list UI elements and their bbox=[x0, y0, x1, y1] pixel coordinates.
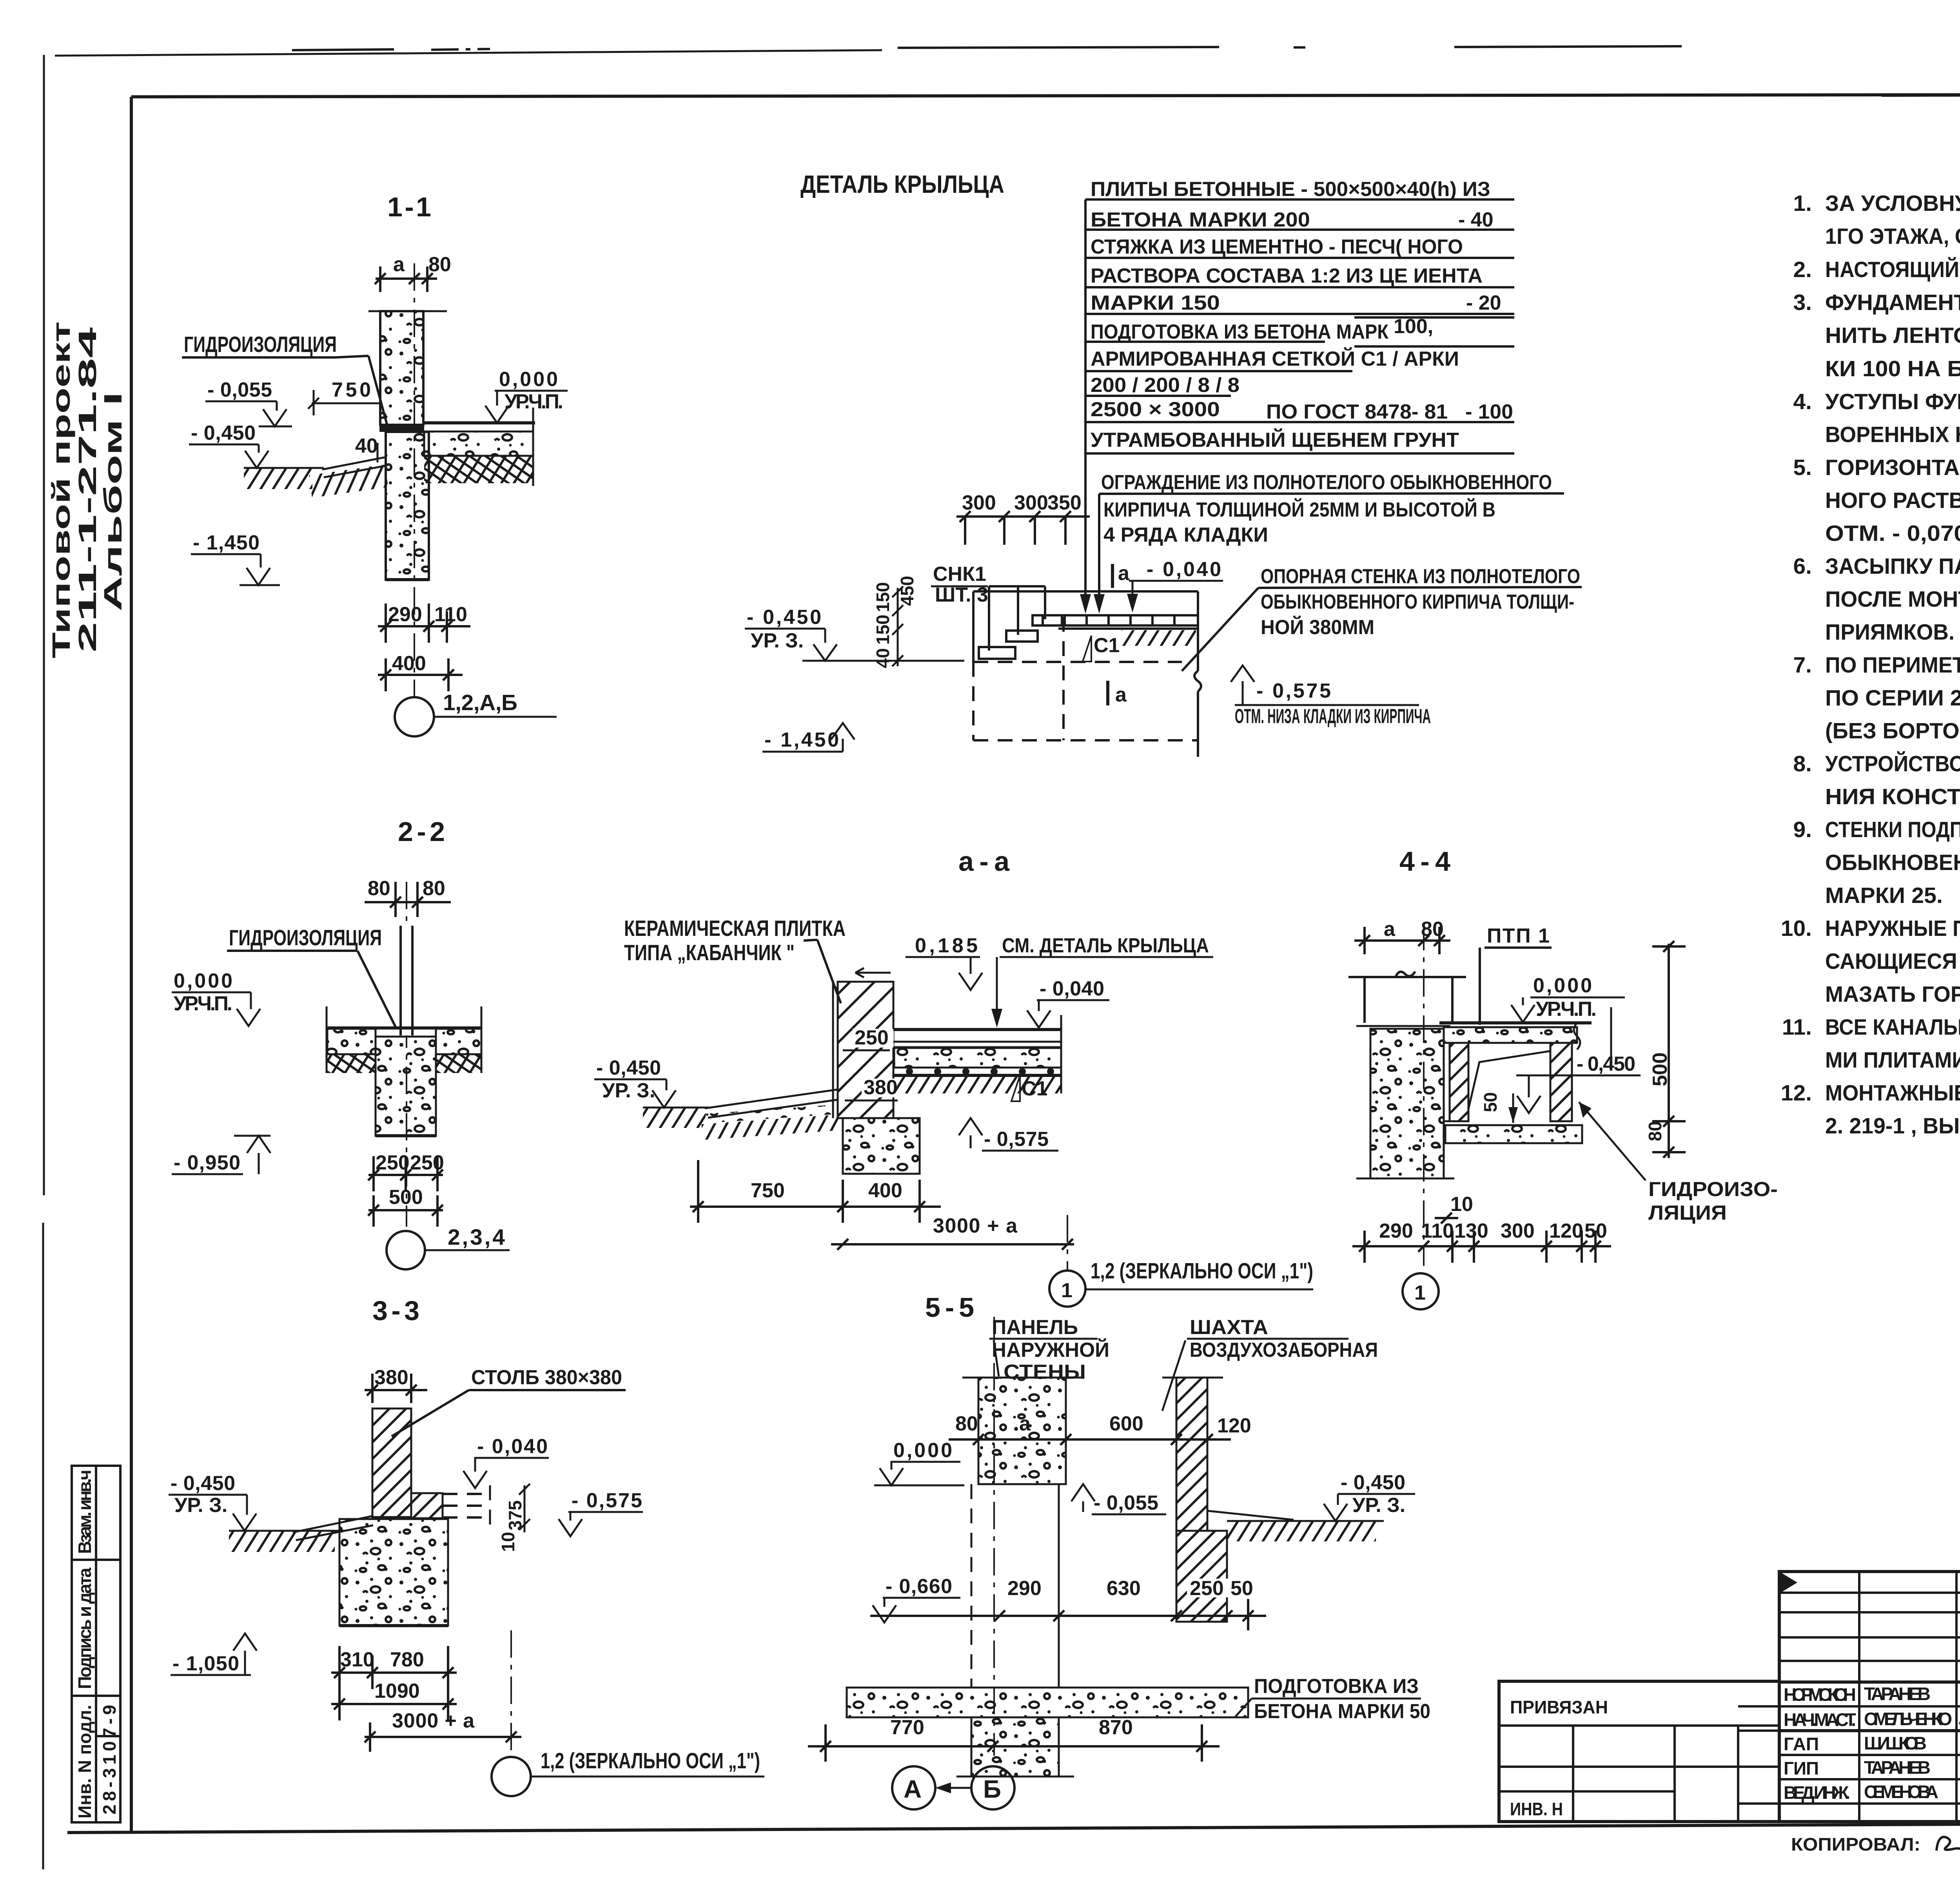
svg-text:МОНТАЖНЫЕ УЗЛЫ ПОДПОЛЬНЫХ КАНА: МОНТАЖНЫЕ УЗЛЫ ПОДПОЛЬНЫХ КАНАЛОВ ВЫПОЛН… bbox=[1825, 1080, 1960, 1106]
svg-text:УР. З.: УР. З. bbox=[602, 1079, 655, 1102]
svg-text:40: 40 bbox=[355, 435, 378, 457]
rotated dims 10 375 bbox=[498, 1500, 525, 1552]
svg-text:200 / 200 / 8 / 8: 200 / 200 / 8 / 8 bbox=[1091, 374, 1240, 397]
svg-text:СМ. ДЕТАЛЬ КРЫЛЬЦА: СМ. ДЕТАЛЬ КРЫЛЬЦА bbox=[1002, 934, 1209, 957]
svg-text:120: 120 bbox=[1549, 1220, 1583, 1242]
svg-text:ШАХТА: ШАХТА bbox=[1190, 1316, 1268, 1339]
privyazan box bbox=[1499, 1681, 1779, 1822]
svg-text:0,000: 0,000 bbox=[174, 970, 232, 992]
svg-text:4 - 4: 4 - 4 bbox=[1399, 846, 1450, 877]
svg-text:- 0,660: - 0,660 bbox=[886, 1575, 952, 1598]
svg-text:630: 630 bbox=[1107, 1577, 1141, 1600]
channel bottom slab bbox=[1445, 1125, 1582, 1143]
left grid verticals bbox=[1858, 1572, 1860, 1822]
svg-text:ПЛИТЫ БЕТОННЫЕ - 500×500×40(h): ПЛИТЫ БЕТОННЫЕ - 500×500×40(h) ИЗ bbox=[1091, 178, 1490, 201]
axis circle 2,3,4 bbox=[387, 1231, 425, 1269]
svg-text:150: 150 bbox=[873, 582, 893, 612]
lower wall 5-5 bbox=[971, 1484, 973, 1688]
svg-text:750: 750 bbox=[751, 1179, 785, 1202]
svg-text:УР. З.: УР. З. bbox=[174, 1494, 227, 1517]
axis circle 1,2,A,B bbox=[395, 697, 434, 736]
svg-text:МИ ПЛИТАМИ, УКЛАДЫВАЯ ИХ НА ЦЕ: МИ ПЛИТАМИ, УКЛАДЫВАЯ ИХ НА ЦЕМЕНТНЫЙ РА… bbox=[1825, 1047, 1960, 1073]
svg-text:БЕТОНА МАРКИ 50: БЕТОНА МАРКИ 50 bbox=[1254, 1700, 1430, 1723]
svg-text:Типовой проект: Типовой проект bbox=[47, 321, 75, 658]
svg-text:ТИПА „КАБАНЧИК ": ТИПА „КАБАНЧИК " bbox=[624, 940, 795, 965]
svg-text:2,3,4: 2,3,4 bbox=[448, 1225, 505, 1250]
foundation a-a bbox=[843, 1118, 920, 1174]
svg-text:УР.Ч.П.: УР.Ч.П. bbox=[505, 390, 563, 413]
svg-text:ОТМ. - 0,070).: ОТМ. - 0,070). bbox=[1825, 521, 1960, 546]
svg-text:НАЧ.МАСТ.: НАЧ.МАСТ. bbox=[1784, 1709, 1856, 1730]
svg-text:ПТП 1: ПТП 1 bbox=[1487, 925, 1550, 947]
svg-text:250: 250 bbox=[376, 1151, 410, 1174]
svg-text:ГАП: ГАП bbox=[1784, 1734, 1819, 1754]
plates row bbox=[1033, 614, 1197, 616]
svg-text:1: 1 bbox=[1414, 1282, 1426, 1304]
svg-text:- 20: - 20 bbox=[1466, 292, 1501, 314]
svg-text:1: 1 bbox=[1061, 1279, 1073, 1302]
svg-text:290: 290 bbox=[1007, 1577, 1042, 1600]
brick wall a-a bbox=[838, 982, 893, 1118]
svg-text:ГОРИЗОНТАЛЬНУЮ ГИДРОИЗОЛЯЦИЮ В: ГОРИЗОНТАЛЬНУЮ ГИДРОИЗОЛЯЦИЮ ВЫПОЛНИТЬ И… bbox=[1825, 455, 1960, 480]
svg-text:ТАРАНЕВ: ТАРАНЕВ bbox=[1864, 1684, 1931, 1704]
250 and 380 labels on wall bbox=[853, 1029, 894, 1048]
sheet outer left edge bbox=[43, 55, 45, 1195]
channel walls hatched bbox=[1450, 1043, 1468, 1121]
svg-text:a: a bbox=[1384, 918, 1396, 941]
top edge line bbox=[55, 50, 882, 56]
svg-text:1,2 (ЗЕРКАЛЬНО ОСИ „1"): 1,2 (ЗЕРКАЛЬНО ОСИ „1") bbox=[1091, 1258, 1313, 1283]
svg-text:10.: 10. bbox=[1781, 916, 1812, 941]
svg-text:0,000: 0,000 bbox=[499, 368, 558, 391]
foundation 2-2 bbox=[376, 1037, 436, 1136]
svg-text:4.: 4. bbox=[1793, 389, 1812, 414]
svg-text:А: А bbox=[904, 1775, 922, 1803]
svg-text:5 - 5: 5 - 5 bbox=[925, 1292, 974, 1323]
svg-text:80: 80 bbox=[955, 1412, 978, 1435]
svg-text:11.: 11. bbox=[1782, 1015, 1812, 1040]
svg-text:ВЕД. ИНЖ.: ВЕД. ИНЖ. bbox=[1784, 1782, 1850, 1803]
svg-text:350: 350 bbox=[1047, 491, 1082, 514]
porch slab layers right bbox=[893, 1028, 1061, 1031]
svg-text:НОГО РАСТВОРА СОСТАВА 1:2 ТОЛЩ: НОГО РАСТВОРА СОСТАВА 1:2 ТОЛЩИНОЙ 25ММ … bbox=[1825, 488, 1960, 513]
general notes 1-12 bbox=[1781, 191, 1960, 1138]
svg-text:ОТМ. НИЗА КЛАДКИ ИЗ КИРПИЧА: ОТМ. НИЗА КЛАДКИ ИЗ КИРПИЧА bbox=[1235, 705, 1431, 728]
porch plan drawing bbox=[989, 586, 1045, 651]
svg-text:0,000: 0,000 bbox=[1533, 974, 1592, 997]
svg-text:300: 300 bbox=[1014, 491, 1048, 514]
svg-text:- 1,450: - 1,450 bbox=[193, 531, 260, 554]
svg-text:САЮЩИЕСЯ С ГРУНТОМ, ЗАТЕРЕТЬ Ц: САЮЩИЕСЯ С ГРУНТОМ, ЗАТЕРЕТЬ ЦЕМЕНТНЫМ Р… bbox=[1825, 949, 1960, 974]
svg-text:211-1-271.84: 211-1-271.84 bbox=[73, 327, 102, 653]
wall panel 5-5 bbox=[978, 1378, 1066, 1484]
waterproofing line in channel bbox=[1468, 1051, 1550, 1109]
svg-text:- 0,575: - 0,575 bbox=[984, 1128, 1049, 1151]
svg-text:- 0,450: - 0,450 bbox=[191, 422, 256, 444]
plan outline bbox=[973, 590, 1198, 593]
500 80 vertical dims bbox=[1645, 1052, 1671, 1141]
svg-text:1,2,А,Б: 1,2,А,Б bbox=[443, 690, 517, 715]
axis circles A B bbox=[892, 1766, 935, 1809]
svg-text:1,2 (ЗЕРКАЛЬНО ОСИ „1"): 1,2 (ЗЕРКАЛЬНО ОСИ „1") bbox=[541, 1748, 760, 1773]
svg-text:0,000: 0,000 bbox=[893, 1439, 952, 1462]
svg-text:Взам. инв.ч: Взам. инв.ч bbox=[74, 1470, 95, 1554]
svg-text:МАРКИ 150: МАРКИ 150 bbox=[1091, 292, 1220, 314]
svg-text:290: 290 bbox=[388, 603, 422, 626]
svg-text:ЗА УСЛОВНУЮ ОТМЕТКУ 0,00 ПРИНЯ: ЗА УСЛОВНУЮ ОТМЕТКУ 0,00 ПРИНЯТЬ УРОВЕНЬ… bbox=[1825, 191, 1960, 216]
svg-text:ПРИЯМКОВ.: ПРИЯМКОВ. bbox=[1825, 620, 1955, 645]
svg-text:НИЯ КОНСТРУКЦИЙ ПОЛОВ НА ОТМ.: НИЯ КОНСТРУКЦИЙ ПОЛОВ НА ОТМ. 0,000 И - … bbox=[1825, 784, 1960, 809]
svg-text:ЗАСЫПКУ ПАЗУХ ПРИ УСТРОЙСТВЕ Ф: ЗАСЫПКУ ПАЗУХ ПРИ УСТРОЙСТВЕ ФУНДАМЕНТОВ… bbox=[1825, 553, 1960, 579]
svg-text:ГИП: ГИП bbox=[1784, 1758, 1819, 1778]
upper wall 1-1 bbox=[380, 311, 423, 425]
svg-text:ОБЫКНОВЕННОГО КИРПИЧА ТОЛЩИ-: ОБЫКНОВЕННОГО КИРПИЧА ТОЛЩИ- bbox=[1261, 591, 1574, 613]
svg-text:УР.Ч.П.: УР.Ч.П. bbox=[174, 992, 232, 1015]
svg-text:Альбом I: Альбом I bbox=[99, 392, 127, 611]
frame left bbox=[130, 97, 133, 1831]
svg-text:РАСТВОРА СОСТАВА 1:2 ИЗ ЦЕ ИЕН: РАСТВОРА СОСТАВА 1:2 ИЗ ЦЕ ИЕНТА bbox=[1091, 265, 1483, 287]
svg-text:- 0,040: - 0,040 bbox=[477, 1435, 548, 1458]
svg-text:Б: Б bbox=[983, 1775, 1001, 1803]
svg-text:НАСТОЯЩИЙ ЧЕРТЕЖ ЧИТАТЬ СОВМЕС: НАСТОЯЩИЙ ЧЕРТЕЖ ЧИТАТЬ СОВМЕСТНО С АС-6… bbox=[1825, 257, 1960, 282]
svg-text:- 0,055: - 0,055 bbox=[207, 379, 272, 401]
svg-text:80: 80 bbox=[423, 877, 445, 900]
post hatched 3-3 bbox=[372, 1409, 411, 1517]
svg-text:50: 50 bbox=[1230, 1577, 1253, 1600]
svg-text:ВСЕ КАНАЛЫ ПЕРЕКРЫТЬ СБОРНЫМИ: ВСЕ КАНАЛЫ ПЕРЕКРЫТЬ СБОРНЫМИ ЖЕЛЕЗОБЕТО… bbox=[1825, 1015, 1960, 1040]
svg-text:Инв. N подл.: Инв. N подл. bbox=[74, 1705, 95, 1818]
svg-text:1ГО ЭТАЖА, СООТВЕТСТВУЮЩИЙ АБС: 1ГО ЭТАЖА, СООТВЕТСТВУЮЩИЙ АБСОЛЮТНОЙ ОТ… bbox=[1825, 223, 1960, 249]
left margin vertical project text bbox=[47, 321, 127, 658]
svg-text:ПОДГОТОВКА ИЗ: ПОДГОТОВКА ИЗ bbox=[1254, 1675, 1419, 1698]
svg-text:2500 × 3000: 2500 × 3000 bbox=[1091, 398, 1220, 421]
svg-text:- 0,450: - 0,450 bbox=[1341, 1471, 1405, 1494]
svg-text:- 0,575: - 0,575 bbox=[1256, 680, 1331, 702]
svg-text:3000 + a: 3000 + a bbox=[392, 1709, 475, 1732]
ground 5-5 bbox=[1227, 1520, 1384, 1522]
svg-text:130: 130 bbox=[1454, 1220, 1488, 1242]
svg-text:СТЕНКИ ПОДПОЛЬНЫХ КАНАЛОВ И ПР: СТЕНКИ ПОДПОЛЬНЫХ КАНАЛОВ И ПРИЯМКОВ КЛА… bbox=[1825, 817, 1960, 842]
svg-text:4 РЯДА КЛАДКИ: 4 РЯДА КЛАДКИ bbox=[1103, 524, 1268, 546]
svg-text:БЕТОНА МАРКИ 200: БЕТОНА МАРКИ 200 bbox=[1091, 208, 1310, 231]
svg-text:770: 770 bbox=[890, 1716, 924, 1739]
wall below strip bbox=[971, 1717, 1059, 1777]
svg-text:ПРИВЯЗАН: ПРИВЯЗАН bbox=[1510, 1697, 1608, 1717]
axis circle 4-4 bbox=[1403, 1273, 1439, 1309]
svg-text:50: 50 bbox=[1480, 1092, 1501, 1112]
svg-text:12.: 12. bbox=[1781, 1080, 1812, 1106]
svg-text:28-3107-9: 28-3107-9 bbox=[99, 1705, 120, 1815]
svg-text:- 40: - 40 bbox=[1458, 208, 1494, 231]
svg-text:- 1,050: - 1,050 bbox=[172, 1652, 239, 1675]
personnel rows bbox=[1779, 1705, 1960, 1708]
axis circle 3-3 bbox=[492, 1757, 531, 1796]
left stamp column boxes bbox=[72, 1466, 120, 1822]
foundation 3-3 bbox=[339, 1519, 448, 1626]
svg-text:Подпись и дата: Подпись и дата bbox=[74, 1568, 95, 1689]
svg-text:5.: 5. bbox=[1793, 455, 1812, 480]
steps plan bbox=[979, 647, 1015, 659]
waterproofing band bbox=[379, 425, 424, 432]
svg-text:ПО СЕРИИ 2.110-1 , ВЫП. 1 , ПО: ПО СЕРИИ 2.110-1 , ВЫП. 1 , ПО АНАЛОГИИ … bbox=[1825, 685, 1960, 711]
svg-text:0,185: 0,185 bbox=[915, 934, 978, 957]
svg-text:ГИДРОИЗОЛЯЦИЯ: ГИДРОИЗОЛЯЦИЯ bbox=[184, 332, 337, 357]
svg-text:УР. З.: УР. З. bbox=[1352, 1494, 1405, 1517]
svg-text:НИТЬ ЛЕНТОЧНЫМИ ИЗ БУТОБЕТОНА:: НИТЬ ЛЕНТОЧНЫМИ ИЗ БУТОБЕТОНА: БУТОВЫЙ К… bbox=[1825, 323, 1960, 348]
svg-text:КОПИРОВАЛ:: КОПИРОВАЛ: bbox=[1791, 1834, 1920, 1854]
svg-text:3000 + a: 3000 + a bbox=[933, 1215, 1018, 1237]
svg-text:120: 120 bbox=[1217, 1414, 1251, 1437]
svg-text:- 0,450: - 0,450 bbox=[596, 1057, 661, 1079]
frame top bbox=[131, 94, 1960, 97]
svg-text:9.: 9. bbox=[1793, 817, 1812, 842]
svg-text:СНК1: СНК1 bbox=[933, 563, 986, 586]
svg-text:НАРУЖНОЙ: НАРУЖНОЙ bbox=[992, 1338, 1109, 1361]
svg-text:УСТРОЙСТВО ПОДПОЛЬНЫХ КАНАЛОВ: УСТРОЙСТВО ПОДПОЛЬНЫХ КАНАЛОВ ПРОИЗВОДИТ… bbox=[1825, 751, 1960, 776]
-0,055 bbox=[1071, 1484, 1095, 1501]
svg-text:КЕРАМИЧЕСКАЯ ПЛИТКА: КЕРАМИЧЕСКАЯ ПЛИТКА bbox=[624, 916, 846, 941]
svg-text:500: 500 bbox=[389, 1186, 423, 1209]
svg-text:ОМЕЛЬЧЕНКО: ОМЕЛЬЧЕНКО bbox=[1864, 1709, 1952, 1729]
svg-text:250: 250 bbox=[855, 1026, 889, 1049]
svg-text:ЛЯЦИЯ: ЛЯЦИЯ bbox=[1648, 1202, 1727, 1224]
svg-text:ШТ. 3: ШТ. 3 bbox=[935, 584, 988, 606]
frame bottom bbox=[67, 1822, 1960, 1833]
upper small rows left bbox=[1779, 1592, 1960, 1594]
svg-text:СТОЛБ 380×380: СТОЛБ 380×380 bbox=[471, 1366, 622, 1389]
svg-text:2.: 2. bbox=[1793, 257, 1812, 282]
svg-text:780: 780 bbox=[390, 1648, 424, 1671]
svg-text:ПАНЕЛЬ: ПАНЕЛЬ bbox=[992, 1316, 1078, 1339]
50 rotated bbox=[1480, 1092, 1501, 1112]
svg-text:КИ 100 НА БЕТОНЕ МАРКИ 50.: КИ 100 НА БЕТОНЕ МАРКИ 50. bbox=[1825, 356, 1960, 381]
svg-text:40: 40 bbox=[873, 648, 893, 668]
svg-text:- 0,450: - 0,450 bbox=[171, 1472, 235, 1495]
slab 2-2 bbox=[327, 1026, 481, 1030]
svg-text:ОГРАЖДЕНИЕ ИЗ ПОЛНОТЕЛОГО ОБЫК: ОГРАЖДЕНИЕ ИЗ ПОЛНОТЕЛОГО ОБЫКНОВЕННОГО bbox=[1101, 471, 1552, 494]
svg-text:a: a bbox=[393, 253, 405, 276]
svg-text:НОЙ 380ММ: НОЙ 380ММ bbox=[1261, 616, 1374, 639]
svg-text:2. 219-1 , ВЫП. 1.: 2. 219-1 , ВЫП. 1. bbox=[1825, 1113, 1960, 1138]
svg-text:150: 150 bbox=[873, 615, 893, 645]
svg-text:НОРМОКОН: НОРМОКОН bbox=[1784, 1684, 1856, 1705]
svg-text:600: 600 bbox=[1109, 1412, 1143, 1435]
-0,575 a-a bbox=[959, 1118, 982, 1135]
svg-text:a: a bbox=[1019, 1412, 1031, 1435]
dim 300 300 350 bbox=[956, 491, 1090, 545]
svg-text:АРМИРОВАННАЯ СЕТКОЙ С1 / АРКИ: АРМИРОВАННАЯ СЕТКОЙ С1 / АРКИ bbox=[1091, 347, 1459, 370]
svg-text:С1: С1 bbox=[1022, 1077, 1047, 1100]
floor slab right 1-1 bbox=[424, 431, 533, 456]
svg-text:400: 400 bbox=[392, 652, 426, 675]
svg-text:10: 10 bbox=[1450, 1193, 1473, 1216]
top scan dashes bbox=[292, 46, 1960, 96]
svg-text:250: 250 bbox=[1190, 1577, 1224, 1600]
svg-text:- 0,040: - 0,040 bbox=[1147, 558, 1221, 581]
svg-text:ДЕТАЛЬ КРЫЛЬЦА: ДЕТАЛЬ КРЫЛЬЦА bbox=[800, 170, 1004, 198]
svg-text:ШИШКОВ: ШИШКОВ bbox=[1864, 1733, 1927, 1753]
svg-text:380: 380 bbox=[864, 1076, 898, 1099]
svg-text:870: 870 bbox=[1099, 1716, 1133, 1739]
svg-text:ПО ПЕРИМЕТРУ ЗДАНИЯ ОРГАНИЗОВА: ПО ПЕРИМЕТРУ ЗДАНИЯ ОРГАНИЗОВАТЬ АСФАЛЬТ… bbox=[1825, 653, 1960, 678]
svg-text:ВОЗДУХОЗАБОРНАЯ: ВОЗДУХОЗАБОРНАЯ bbox=[1190, 1339, 1378, 1361]
shaft wall 5-5 bbox=[1176, 1378, 1207, 1531]
svg-text:- 1,450: - 1,450 bbox=[764, 729, 839, 751]
support wall text bbox=[1182, 565, 1582, 671]
svg-text:- 0,450: - 0,450 bbox=[747, 606, 821, 629]
svg-text:300: 300 bbox=[1501, 1220, 1535, 1242]
svg-text:10: 10 bbox=[498, 1532, 518, 1552]
partition panel 2-2 bbox=[396, 926, 417, 1035]
svg-text:ОПОРНАЯ СТЕНКА ИЗ ПОЛНОТЕЛОГО: ОПОРНАЯ СТЕНКА ИЗ ПОЛНОТЕЛОГО bbox=[1261, 565, 1580, 588]
svg-text:УР.Ч.П.: УР.Ч.П. bbox=[1536, 998, 1597, 1021]
svg-text:ГИДРОИЗОЛЯЦИЯ: ГИДРОИЗОЛЯЦИЯ bbox=[229, 925, 382, 950]
svg-text:ТАРАНЕВ: ТАРАНЕВ bbox=[1864, 1757, 1931, 1778]
svg-text:ВОРЕННЫХ НА ЧЕРТЕЖЕ.: ВОРЕННЫХ НА ЧЕРТЕЖЕ. bbox=[1825, 422, 1960, 447]
ground left of wall bbox=[244, 467, 324, 469]
axis circle a-a bbox=[1049, 1271, 1085, 1307]
elevation -0,575 right of plan bbox=[1231, 665, 1254, 682]
vertical stack dims 40 150 150 450 bbox=[873, 576, 917, 668]
svg-text:ОБЫКНОВЕННОГО КИРПИЧА (ГОСТ 53: ОБЫКНОВЕННОГО КИРПИЧА (ГОСТ 530-80) МАРК… bbox=[1825, 850, 1960, 875]
svg-text:2 - 2: 2 - 2 bbox=[398, 816, 445, 847]
leader from table to plan bbox=[1084, 199, 1087, 604]
svg-text:- 0,950: - 0,950 bbox=[174, 1151, 240, 1174]
svg-text:750: 750 bbox=[332, 379, 371, 401]
blind area slope a-a bbox=[705, 1089, 838, 1108]
svg-text:290: 290 bbox=[1379, 1220, 1413, 1242]
svg-text:a - a: a - a bbox=[958, 846, 1010, 877]
svg-text:МАЗАТЬ ГОРЯЧИМ БИТУМОМ ЗА 2 РА: МАЗАТЬ ГОРЯЧИМ БИТУМОМ ЗА 2 РАЗА. bbox=[1825, 982, 1960, 1007]
svg-text:80: 80 bbox=[368, 877, 390, 900]
svg-text:УТРАМБОВАННЫЙ ЩЕБНЕМ ГРУНТ: УТРАМБОВАННЫЙ ЩЕБНЕМ ГРУНТ bbox=[1091, 428, 1459, 451]
svg-text:УР. З.: УР. З. bbox=[751, 629, 804, 652]
svg-text:1090: 1090 bbox=[374, 1680, 420, 1702]
svg-text:ПО ГОСТ 8478- 81 - 100: ПО ГОСТ 8478- 81 - 100 bbox=[1266, 401, 1513, 423]
section a marks bbox=[1111, 564, 1114, 588]
svg-text:УСТУПЫ ФУНДАМЕНТОВ ДЕЛАТЬ ВЫСО: УСТУПЫ ФУНДАМЕНТОВ ДЕЛАТЬ ВЫСОТОЙ 500 ММ… bbox=[1825, 389, 1960, 414]
svg-text:КИРПИЧА ТОЛЩИНОЙ 25ММ И ВЫСОТО: КИРПИЧА ТОЛЩИНОЙ 25ММ И ВЫСОТОЙ В bbox=[1103, 498, 1495, 521]
svg-text:МАРКИ 25.: МАРКИ 25. bbox=[1825, 883, 1943, 908]
svg-text:(БЕЗ БОРТОВОГО КАМНЯ) ШИРИНОЙ: (БЕЗ БОРТОВОГО КАМНЯ) ШИРИНОЙ 750 ММ. bbox=[1825, 718, 1960, 743]
svg-text:- 0,055: - 0,055 bbox=[1094, 1492, 1158, 1514]
blind area slope bbox=[322, 457, 387, 470]
svg-text:7.: 7. bbox=[1793, 653, 1812, 678]
svg-text:- 0,450: - 0,450 bbox=[1577, 1053, 1635, 1075]
svg-text:400: 400 bbox=[868, 1179, 902, 1202]
prep strip 5-5 bbox=[847, 1688, 1248, 1717]
svg-text:НАРУЖНЫЕ ПОВЕРХНОСТИ СТЕНОК КА: НАРУЖНЫЕ ПОВЕРХНОСТИ СТЕНОК КАНАЛОВ И ПР… bbox=[1825, 916, 1960, 941]
svg-text:ИНВ. Н: ИНВ. Н bbox=[1510, 1799, 1563, 1819]
svg-text:80: 80 bbox=[1645, 1121, 1665, 1141]
svg-text:a: a bbox=[1115, 683, 1127, 706]
slab right 4-4 bbox=[1439, 1021, 1592, 1024]
svg-text:С1: С1 bbox=[1094, 634, 1120, 657]
ground 3-3 bbox=[229, 1530, 345, 1532]
hidden dashed ledge bbox=[443, 1494, 490, 1517]
centerline 1-1 bbox=[414, 263, 415, 698]
foundation 4-4 bbox=[1370, 1029, 1444, 1178]
fence text bbox=[1094, 471, 1564, 614]
svg-text:250: 250 bbox=[410, 1151, 444, 1174]
svg-text:3 - 3: 3 - 3 bbox=[372, 1295, 419, 1326]
wall panel 4-4 with break bbox=[1348, 972, 1466, 1023]
svg-text:8.: 8. bbox=[1793, 751, 1812, 776]
svg-text:ПОСЛЕ МОНТАЖА ВСЕХ ПЕРЕКРЫТИЙ: ПОСЛЕ МОНТАЖА ВСЕХ ПЕРЕКРЫТИЙ ПОДПОЛЬНЫХ… bbox=[1825, 586, 1960, 612]
svg-text:380: 380 bbox=[374, 1366, 408, 1389]
svg-text:6.: 6. bbox=[1793, 554, 1812, 579]
svg-text:110: 110 bbox=[1421, 1220, 1454, 1242]
svg-text:ФУНДАМЕНТЫ ПОД НАРУЖНЫЕ И ВНУТ: ФУНДАМЕНТЫ ПОД НАРУЖНЫЕ И ВНУТРЕННИЕ СТЕ… bbox=[1825, 290, 1960, 315]
svg-text:СТЯЖКА ИЗ ЦЕМЕНТНО - ПЕСЧ( НОГ: СТЯЖКА ИЗ ЦЕМЕНТНО - ПЕСЧ( НОГО bbox=[1091, 236, 1463, 258]
svg-text:300: 300 bbox=[962, 491, 996, 514]
svg-text:- 0,040: - 0,040 bbox=[1040, 977, 1104, 1000]
svg-text:a: a bbox=[1118, 562, 1130, 585]
ground a-a bbox=[643, 1107, 710, 1109]
lower wall 1-1 bbox=[386, 432, 429, 580]
svg-text:СЕМЕНОВА: СЕМЕНОВА bbox=[1864, 1782, 1938, 1802]
svg-text:ГИДРОИЗО-: ГИДРОИЗО- bbox=[1648, 1178, 1778, 1201]
svg-text:- 0,575: - 0,575 bbox=[572, 1489, 642, 1512]
svg-text:1.: 1. bbox=[1793, 191, 1812, 216]
svg-text:1 - 1: 1 - 1 bbox=[387, 192, 431, 222]
svg-text:3.: 3. bbox=[1793, 290, 1812, 315]
svg-text:ПОДГОТОВКА ИЗ БЕТОНА МАРК: ПОДГОТОВКА ИЗ БЕТОНА МАРК bbox=[1091, 321, 1388, 343]
callout table plates/screed/prep bbox=[1080, 178, 1514, 614]
